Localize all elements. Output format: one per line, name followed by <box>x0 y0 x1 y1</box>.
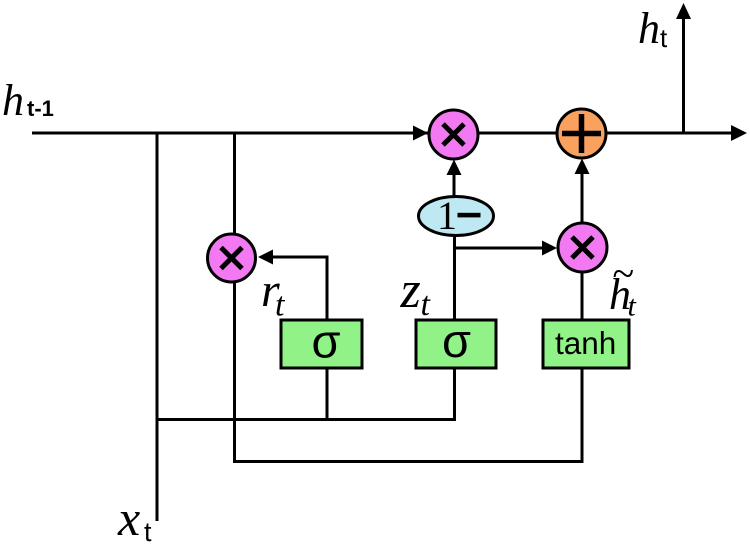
wire: sigma_z bottom stub <box>453 369 456 421</box>
svg-text:z: z <box>400 262 421 319</box>
svg-text:x: x <box>117 490 140 544</box>
wire: below reset multiply down to line 2 <box>233 282 236 463</box>
add node <box>557 109 606 158</box>
wire: corner to reset multiply <box>271 256 329 259</box>
svg-text:t: t <box>144 517 152 544</box>
svg-text:t-1: t-1 <box>27 96 54 121</box>
wire: sigma_r bottom stub <box>326 369 329 420</box>
svg-text:σ: σ <box>442 314 471 367</box>
svg-text:t: t <box>628 290 637 323</box>
multiply node (candidate product) <box>558 223 607 272</box>
wire: vertical branch B down to reset multiply <box>233 133 236 234</box>
wire: horizontal line 2 (reset product to tanh) <box>233 460 584 463</box>
arrowhead: into reset multiply from right <box>258 250 273 265</box>
wire: main horizontal h line <box>32 132 737 135</box>
multiply node (reset gate product) <box>208 234 256 282</box>
wire: ellipse to top multiply <box>453 174 456 196</box>
sigma box (update gate) <box>416 320 496 368</box>
wire: candidate multiply down to tanh <box>581 272 584 319</box>
svg-text:h: h <box>2 76 24 125</box>
multiply node (update gate, top) <box>429 110 478 159</box>
svg-text:1: 1 <box>437 193 457 238</box>
svg-text:h: h <box>638 4 660 53</box>
svg-text:t: t <box>660 23 668 53</box>
arrowhead: into top multiply from below <box>447 160 462 176</box>
svg-text:t: t <box>275 287 286 324</box>
wire: tanh bottom stub <box>581 369 584 463</box>
arrowhead: main line output right <box>731 125 747 141</box>
wire: sigma_r top stub up to corner <box>326 256 329 320</box>
wire: candidate multiply up to plus <box>581 173 584 222</box>
wire: sigma_z top stub to ellipse <box>453 235 456 319</box>
svg-text:σ: σ <box>312 315 341 368</box>
arrowhead: into top multiply node <box>413 126 428 141</box>
arrowhead: h_t output up <box>676 3 691 19</box>
arrowhead: into candidate multiply from left <box>542 241 557 256</box>
arrowhead: into plus from below <box>575 159 590 175</box>
wire: h_t output branch vertical <box>682 17 685 133</box>
tanh box <box>543 320 629 368</box>
one-minus ellipse <box>419 197 494 236</box>
svg-text:t: t <box>421 286 432 323</box>
wire: branch to candidate multiply <box>453 247 544 250</box>
sigma box (reset gate) <box>281 320 362 368</box>
wire: vertical line A (h_t-1 / x_t bus) <box>156 133 159 521</box>
wire: horizontal input line 1 <box>156 418 457 421</box>
svg-text:tanh: tanh <box>555 325 616 361</box>
